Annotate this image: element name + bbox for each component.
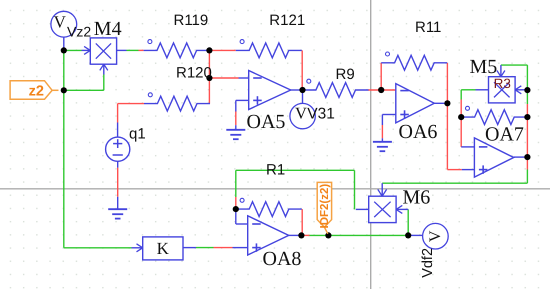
svg-text:R11: R11 [415,19,441,36]
svg-text:V: V [295,103,307,122]
svg-text:R119: R119 [174,12,209,29]
svg-text:q1: q1 [129,126,146,143]
svg-text:OA5: OA5 [247,111,286,133]
svg-text:K: K [157,239,170,258]
svg-text:R1: R1 [266,161,285,178]
svg-text:IDF2(z2): IDF2(z2) [319,184,331,229]
svg-text:OA6: OA6 [399,121,438,143]
svg-text:Vz2: Vz2 [67,24,91,40]
svg-text:R121: R121 [269,12,305,29]
svg-text:V: V [54,13,67,32]
svg-text:R120: R120 [176,65,212,82]
svg-text:R3: R3 [494,76,511,91]
svg-text:z2: z2 [29,83,44,99]
svg-text:M4: M4 [94,18,122,40]
svg-text:M6: M6 [403,187,431,209]
svg-text:M5: M5 [470,56,498,78]
svg-text:V31: V31 [307,105,335,122]
svg-text:OA7: OA7 [485,123,524,145]
svg-text:Vdf2: Vdf2 [420,248,436,278]
svg-text:V: V [427,230,444,242]
svg-text:R9: R9 [336,66,355,83]
svg-text:OA8: OA8 [263,248,302,270]
